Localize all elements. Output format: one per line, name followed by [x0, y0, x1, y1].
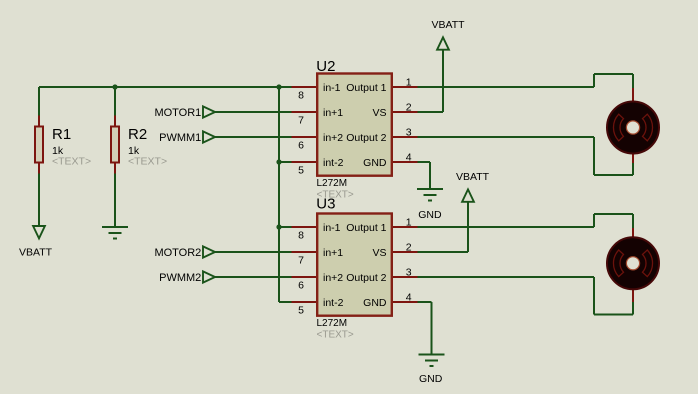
svg-text:PWMM1: PWMM1 — [159, 132, 201, 144]
svg-text:in-1: in-1 — [323, 82, 341, 94]
svg-text:int-2: int-2 — [323, 297, 344, 309]
svg-text:PWMM2: PWMM2 — [159, 272, 201, 284]
svg-text:GND: GND — [363, 297, 387, 309]
svg-text:VS: VS — [372, 247, 386, 259]
svg-text:VBATT: VBATT — [456, 171, 490, 183]
svg-text:in+1: in+1 — [323, 247, 343, 259]
svg-text:VS: VS — [372, 107, 386, 119]
svg-text:2: 2 — [406, 241, 412, 253]
svg-text:VBATT: VBATT — [432, 19, 466, 31]
svg-text:Output 2: Output 2 — [346, 272, 386, 284]
svg-text:L272M: L272M — [317, 178, 348, 189]
svg-text:8: 8 — [298, 90, 304, 102]
svg-text:7: 7 — [298, 255, 304, 267]
svg-text:1: 1 — [406, 76, 412, 88]
svg-text:MOTOR2: MOTOR2 — [154, 247, 201, 259]
svg-text:2: 2 — [406, 101, 412, 113]
svg-text:3: 3 — [406, 266, 412, 278]
svg-text:R2: R2 — [128, 126, 147, 143]
svg-text:R1: R1 — [52, 126, 71, 143]
svg-text:in+2: in+2 — [323, 272, 343, 284]
svg-text:5: 5 — [298, 305, 304, 317]
svg-text:in+1: in+1 — [323, 107, 343, 119]
svg-text:6: 6 — [298, 140, 304, 152]
svg-text:8: 8 — [298, 230, 304, 242]
svg-text:U3: U3 — [316, 196, 335, 213]
svg-text:Output 1: Output 1 — [346, 82, 386, 94]
svg-text:Output 2: Output 2 — [346, 132, 386, 144]
svg-text:<TEXT>: <TEXT> — [317, 330, 354, 341]
svg-text:<TEXT>: <TEXT> — [52, 156, 91, 168]
svg-text:Output 1: Output 1 — [346, 222, 386, 234]
svg-text:L272M: L272M — [317, 318, 348, 329]
svg-text:in-1: in-1 — [323, 222, 341, 234]
svg-text:4: 4 — [406, 151, 412, 163]
svg-text:in+2: in+2 — [323, 132, 343, 144]
svg-text:4: 4 — [406, 291, 412, 303]
svg-text:GND: GND — [418, 209, 442, 221]
svg-text:VBATT: VBATT — [19, 247, 53, 259]
svg-text:GND: GND — [363, 157, 387, 169]
svg-text:<TEXT>: <TEXT> — [128, 156, 167, 168]
svg-text:int-2: int-2 — [323, 157, 344, 169]
svg-text:MOTOR1: MOTOR1 — [154, 107, 201, 119]
svg-text:6: 6 — [298, 280, 304, 292]
svg-text:GND: GND — [419, 373, 443, 385]
svg-text:1: 1 — [406, 216, 412, 228]
svg-text:3: 3 — [406, 126, 412, 138]
svg-text:5: 5 — [298, 165, 304, 177]
svg-text:7: 7 — [298, 115, 304, 127]
svg-text:U2: U2 — [316, 58, 335, 75]
